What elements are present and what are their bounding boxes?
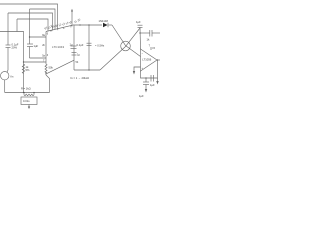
capacitor C3 1uF on right edge xyxy=(70,25,84,70)
capacitor C4 1uF xyxy=(136,20,143,49)
U2 supply stub pin 7 xyxy=(149,44,156,51)
capacitor C7 below C3 xyxy=(72,53,81,57)
wire pot bottom to ground rail xyxy=(46,75,50,93)
svg-text:fo = 1 → 20kHz: fo = 1 → 20kHz xyxy=(71,76,90,80)
svg-text:50k: 50k xyxy=(49,66,54,70)
wire bottom rail xyxy=(5,92,50,93)
wire C1 bottom to pin 5a xyxy=(30,57,47,59)
svg-text:0.01s: 0.01s xyxy=(23,99,30,103)
svg-text:LT1056: LT1056 xyxy=(142,58,151,62)
svg-text:1µ: 1µ xyxy=(70,42,73,46)
ground arrow at feedback corner xyxy=(156,78,158,85)
wire U1 top to diode xyxy=(74,24,102,25)
wire left branch stub xyxy=(16,19,18,32)
wire fo node horizontal xyxy=(74,69,100,70)
wire bus line 1 (top rail to pin 17) xyxy=(0,4,58,29)
flying capacitor C1 1uF xyxy=(27,9,39,58)
wire bus line 5 (left rail down to bottom) xyxy=(0,32,24,93)
wire mixer leg A (diode to U2 input) xyxy=(112,25,141,57)
svg-text:0.1µF: 0.1µF xyxy=(77,43,84,47)
capacitor C6 1uF to ground xyxy=(143,77,155,87)
mixer M1 xyxy=(121,41,131,51)
svg-text:1µ: 1µ xyxy=(77,53,80,57)
capacitor C2 0.1uF xyxy=(6,13,19,72)
resistor R1 1k xyxy=(22,64,30,74)
ground at U2 + input xyxy=(133,67,141,75)
wire bus line 4 (to pin 1) xyxy=(17,19,48,31)
svg-text:R = 1kΩ: R = 1kΩ xyxy=(21,87,31,91)
wire bus line 2 (to pin 3) xyxy=(30,9,56,29)
svg-text:1µF: 1µF xyxy=(150,83,155,87)
capacitor C8 on drop xyxy=(87,43,105,47)
wire pot top to pin 7 xyxy=(23,61,46,62)
sensor box RS xyxy=(21,97,37,105)
wiper arrow to pin 5b xyxy=(45,60,74,74)
svg-text:1N4148: 1N4148 xyxy=(99,19,109,23)
ground arrow below C6 xyxy=(139,85,147,99)
diode D1 1N4148 xyxy=(99,19,113,28)
source V1 fin xyxy=(1,72,14,93)
op-amp U2 LT1056 xyxy=(141,49,158,71)
svg-text:fin: fin xyxy=(11,75,14,79)
clock input arrow xyxy=(71,9,73,26)
U1 pin labels (diagonal) xyxy=(43,17,81,33)
svg-text:1µF: 1µF xyxy=(34,44,39,48)
ground arrow below box xyxy=(28,105,30,110)
svg-text:1µF: 1µF xyxy=(139,94,144,98)
wire bus line 3 (to pin 2) xyxy=(8,13,53,30)
wire feedback loop xyxy=(141,60,158,78)
wire U2 output xyxy=(157,59,160,60)
svg-text:20%: 20% xyxy=(12,46,18,50)
potentiometer R2 50k xyxy=(45,62,53,75)
svg-text:1µF: 1µF xyxy=(136,20,141,24)
wire mixer leg B (fo node to C4 node) xyxy=(100,28,140,70)
svg-text:LTC1043: LTC1043 xyxy=(52,45,64,49)
svg-text:≈ 0.5Hz: ≈ 0.5Hz xyxy=(95,44,105,48)
capacitor C9 in feedback xyxy=(151,75,154,82)
resistor R3 1k shunt xyxy=(21,87,35,96)
capacitor C5 output right xyxy=(139,30,160,42)
U1 pin numbers left/right edge xyxy=(42,33,79,64)
wire clock divider drop xyxy=(88,25,90,70)
svg-text:5%: 5% xyxy=(26,68,30,72)
op-amp U1 LTC1043 outline xyxy=(46,25,74,62)
wire C1 top to pin 8a xyxy=(29,36,46,37)
